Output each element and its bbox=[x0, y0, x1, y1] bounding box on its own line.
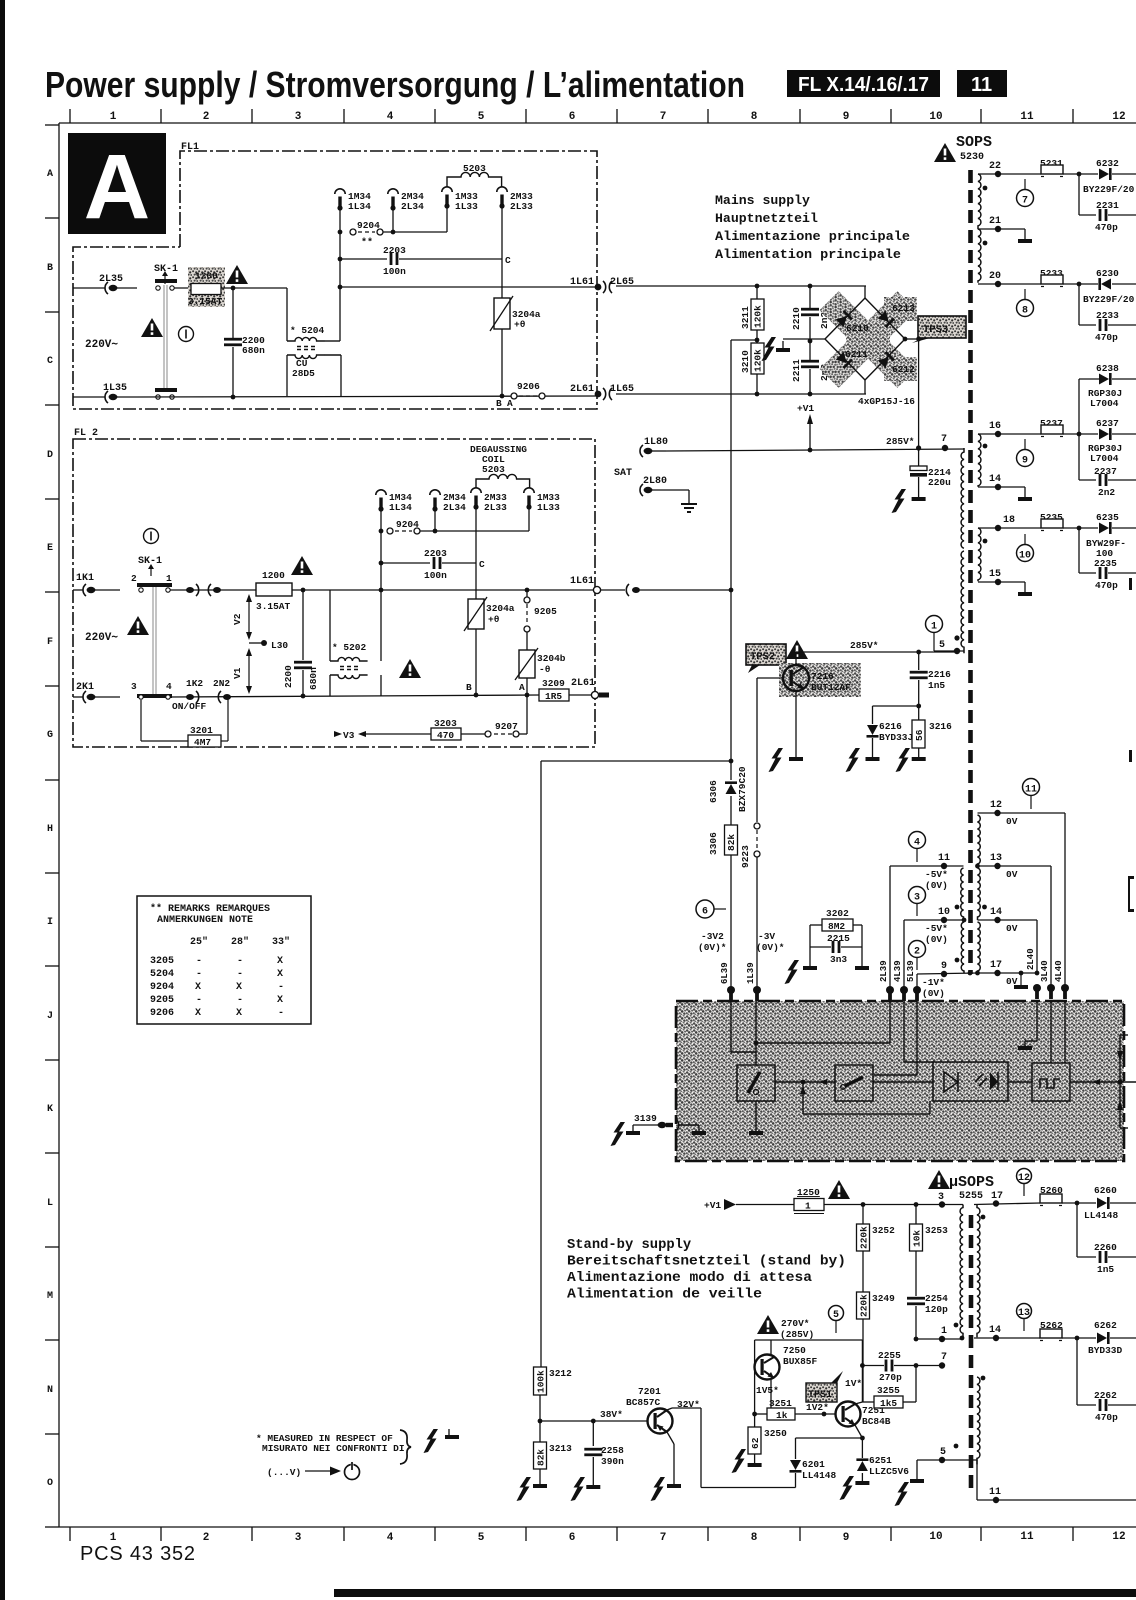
svg-text:-θ: -θ bbox=[539, 664, 551, 675]
IC output wire right bbox=[1070, 1081, 1136, 1083]
test symbol circled I bbox=[179, 327, 194, 342]
filter risers FL2 bbox=[329, 590, 331, 661]
zener 6306 BZX79C20 bbox=[730, 761, 732, 780]
svg-text:2203: 2203 bbox=[383, 245, 406, 256]
svg-text:2: 2 bbox=[203, 1532, 210, 1544]
svg-text:100n: 100n bbox=[424, 570, 447, 581]
bottom ruler bbox=[59, 1527, 1136, 1541]
wire 2L65 rail bbox=[616, 285, 866, 287]
diode 6201 LL4148 bbox=[795, 1438, 797, 1459]
svg-text:L: L bbox=[47, 1198, 53, 1209]
capacitor 2203 100n FL2 bbox=[381, 562, 430, 564]
svg-text:2L40: 2L40 bbox=[1026, 948, 1036, 970]
svg-text:7216: 7216 bbox=[811, 671, 834, 682]
winding 12-13 bbox=[978, 815, 981, 865]
degauss coil stub 1M33 1L33 FL2 bbox=[524, 488, 534, 510]
IC control block (hybrid) bbox=[676, 1001, 1124, 1161]
svg-text:220u: 220u bbox=[928, 477, 951, 488]
svg-text:+θ: +θ bbox=[514, 319, 526, 330]
svg-text:14: 14 bbox=[989, 1325, 1001, 1336]
svg-text:6212: 6212 bbox=[892, 364, 915, 375]
svg-text:3202: 3202 bbox=[826, 908, 849, 919]
svg-text:5: 5 bbox=[478, 1532, 485, 1544]
wire top rail FL2 bbox=[170, 589, 256, 591]
svg-text:2: 2 bbox=[203, 111, 210, 123]
svg-text:2203: 2203 bbox=[424, 548, 447, 559]
svg-text:L30: L30 bbox=[271, 640, 288, 651]
pin 9 wire bbox=[917, 973, 978, 974]
svg-text:3211: 3211 bbox=[740, 306, 751, 329]
wire 7251 emitter to zener bbox=[855, 1425, 862, 1438]
wire 285V rail bbox=[666, 449, 964, 451]
svg-text:-: - bbox=[196, 956, 202, 967]
5255 secondary winding 17-14 bbox=[977, 1205, 980, 1338]
svg-text:BYD33J: BYD33J bbox=[879, 732, 913, 743]
svg-text:2: 2 bbox=[131, 573, 137, 584]
svg-text:Alimentazione modo di attesa: Alimentazione modo di attesa bbox=[567, 1270, 812, 1286]
svg-text:2L39: 2L39 bbox=[879, 960, 889, 982]
degauss coil stub 2M34 2L34 bbox=[388, 189, 398, 211]
svg-text:2L35: 2L35 bbox=[99, 274, 123, 285]
heading Mains supply bbox=[715, 193, 910, 262]
svg-text:28″: 28″ bbox=[231, 936, 249, 948]
svg-text:E: E bbox=[47, 543, 53, 554]
svg-text:11: 11 bbox=[989, 1487, 1001, 1498]
test point 6 bbox=[696, 900, 714, 918]
svg-text:5255: 5255 bbox=[959, 1191, 983, 1202]
pin 17 wire secondary top bbox=[974, 1203, 1040, 1205]
svg-text:2N2: 2N2 bbox=[213, 678, 230, 689]
IC wires from 2L40 terminals bbox=[1036, 1001, 1038, 1041]
svg-text:120k: 120k bbox=[753, 305, 764, 328]
svg-text:1L33: 1L33 bbox=[537, 502, 560, 513]
svg-text:(...V): (...V) bbox=[267, 1467, 301, 1478]
svg-text:7: 7 bbox=[660, 111, 667, 123]
svg-text:4: 4 bbox=[914, 838, 920, 849]
winding 13-14 bbox=[978, 868, 981, 920]
resistor 3212 100k bbox=[534, 1367, 547, 1395]
capacitor 2235 470p bbox=[1077, 526, 1082, 531]
svg-text:6237: 6237 bbox=[1096, 418, 1119, 429]
svg-text:20: 20 bbox=[989, 271, 1001, 282]
svg-text:LLZC5V6: LLZC5V6 bbox=[869, 1466, 909, 1477]
svg-text:FL X.14/.16/.17: FL X.14/.16/.17 bbox=[798, 74, 929, 96]
svg-text:6251: 6251 bbox=[869, 1455, 892, 1466]
pin 11 wire bbox=[890, 865, 964, 867]
svg-text:5: 5 bbox=[833, 1310, 839, 1321]
svg-text:Hauptnetzteil: Hauptnetzteil bbox=[715, 211, 818, 226]
capacitor 2262 470p bbox=[1075, 1336, 1080, 1341]
capacitor 2260 1n5 bbox=[1075, 1201, 1080, 1206]
pin 1 wire bbox=[914, 1338, 963, 1340]
svg-text:BUX85F: BUX85F bbox=[783, 1356, 818, 1367]
svg-text:9204: 9204 bbox=[357, 220, 380, 231]
FL2 dash-dot frame bbox=[73, 439, 595, 747]
svg-text:Alimentazione principale: Alimentazione principale bbox=[715, 229, 910, 244]
svg-text:FL 2: FL 2 bbox=[74, 428, 98, 439]
svg-text:ON/OFF: ON/OFF bbox=[172, 701, 207, 712]
uSOPS warning + label bbox=[928, 1170, 950, 1189]
svg-text:BUT12AF: BUT12AF bbox=[811, 682, 851, 693]
svg-text:L7004: L7004 bbox=[1090, 453, 1119, 464]
svg-text:3255: 3255 bbox=[877, 1385, 900, 1396]
svg-text:1V*: 1V* bbox=[845, 1378, 862, 1389]
svg-text:6230: 6230 bbox=[1096, 268, 1119, 279]
svg-text:Alimentation principale: Alimentation principale bbox=[715, 247, 901, 262]
svg-text:9205: 9205 bbox=[150, 995, 174, 1006]
node V3 bbox=[358, 731, 366, 737]
svg-text:6216: 6216 bbox=[879, 721, 902, 732]
svg-text:I: I bbox=[47, 917, 53, 928]
transistor 7250 BUX85F bbox=[755, 1355, 780, 1380]
svg-text:-: - bbox=[278, 982, 284, 993]
svg-text:BZX79C20: BZX79C20 bbox=[737, 766, 748, 812]
test point 10 bbox=[1017, 545, 1034, 562]
svg-text:13: 13 bbox=[990, 853, 1002, 864]
svg-text:(0V)*: (0V)* bbox=[698, 942, 727, 953]
svg-text:12: 12 bbox=[1112, 1531, 1125, 1543]
svg-text:3: 3 bbox=[295, 111, 302, 123]
svg-text:470p: 470p bbox=[1095, 580, 1118, 591]
svg-text:5L39: 5L39 bbox=[906, 960, 916, 982]
svg-text:-3V2: -3V2 bbox=[701, 931, 724, 942]
svg-text:100n: 100n bbox=[383, 266, 406, 277]
svg-text:5: 5 bbox=[478, 111, 485, 123]
resistor 3253 10k bbox=[915, 1205, 917, 1225]
svg-text:3306: 3306 bbox=[708, 832, 719, 855]
svg-text:1L80: 1L80 bbox=[644, 437, 668, 448]
svg-text:6: 6 bbox=[569, 1532, 576, 1544]
svg-text:X: X bbox=[195, 1008, 201, 1019]
wire degauss column FL2 bbox=[380, 510, 382, 590]
svg-text:ANMERKUNGEN NOTE: ANMERKUNGEN NOTE bbox=[157, 915, 253, 926]
svg-text:21: 21 bbox=[989, 216, 1001, 227]
svg-text:1: 1 bbox=[931, 622, 937, 633]
wires 3202/2215 parallel bbox=[809, 925, 811, 947]
IC wire opto to pwm bbox=[1008, 1081, 1032, 1083]
wire FL1 bottom rail bbox=[137, 396, 597, 397]
svg-text:9223: 9223 bbox=[740, 845, 751, 868]
svg-text:-: - bbox=[196, 995, 202, 1006]
svg-text:* 5202: * 5202 bbox=[332, 642, 367, 653]
capacitor 2210 2n2 bbox=[809, 286, 811, 308]
svg-text:Mains supply: Mains supply bbox=[715, 193, 810, 208]
svg-text:D: D bbox=[47, 450, 53, 461]
svg-text:A: A bbox=[84, 136, 150, 238]
svg-text:7: 7 bbox=[1022, 196, 1028, 207]
transistor 7251 BC848 bbox=[836, 1402, 861, 1427]
bridge rectifier stipple arms bbox=[820, 291, 917, 388]
svg-text:B: B bbox=[496, 398, 502, 409]
svg-text:6235: 6235 bbox=[1096, 512, 1119, 523]
svg-text:A: A bbox=[47, 169, 53, 180]
badge A block bbox=[68, 133, 166, 234]
svg-text:G: G bbox=[47, 730, 53, 741]
transformer 5255 core bbox=[969, 1215, 974, 1492]
node +V1 arrow bbox=[809, 420, 811, 450]
wire 38V to 7201 base bbox=[540, 1420, 648, 1422]
svg-text:7: 7 bbox=[941, 434, 947, 445]
svg-text:82k: 82k bbox=[726, 834, 737, 851]
warning triangle FL1 mains bbox=[141, 318, 163, 337]
resistor 3211 120k bbox=[756, 286, 758, 299]
svg-text:62: 62 bbox=[750, 1437, 761, 1449]
wire divider tap to hot return rail bbox=[731, 339, 757, 341]
svg-text:470p: 470p bbox=[1095, 1412, 1118, 1423]
svg-text:2254: 2254 bbox=[925, 1293, 948, 1304]
svg-text:10k: 10k bbox=[912, 1230, 923, 1247]
svg-text:M: M bbox=[47, 1291, 53, 1302]
secondary winding 18-15 bbox=[978, 528, 981, 581]
svg-text:μSOPS: μSOPS bbox=[949, 1174, 994, 1191]
svg-text:* 5204: * 5204 bbox=[290, 325, 325, 336]
svg-text:220k: 220k bbox=[859, 1294, 870, 1317]
wire filter bottom loop FL1 bbox=[286, 355, 288, 396]
svg-text:25″: 25″ bbox=[190, 936, 208, 948]
pin 22 wire bbox=[978, 173, 1041, 175]
capacitor 2203 100n FL1 bbox=[340, 258, 387, 260]
svg-text:-: - bbox=[237, 969, 243, 980]
capacitor 2200 680n FL1 bbox=[232, 288, 234, 338]
svg-text:9206: 9206 bbox=[150, 1008, 174, 1019]
test point 8 bbox=[1017, 300, 1034, 317]
svg-text:Power supply / Stromversorgung: Power supply / Stromversorgung / L’alime… bbox=[45, 64, 745, 105]
resistor 3249 220k bbox=[857, 1292, 870, 1319]
link 9223 bbox=[754, 823, 760, 829]
svg-text:13: 13 bbox=[1018, 1308, 1030, 1319]
svg-text:2n2: 2n2 bbox=[1098, 487, 1115, 498]
svg-text:680n: 680n bbox=[242, 345, 265, 356]
svg-text:-: - bbox=[196, 969, 202, 980]
svg-text:3210: 3210 bbox=[740, 350, 751, 373]
svg-text:** REMARKS REMARQUES: ** REMARKS REMARQUES bbox=[150, 903, 270, 915]
svg-text:8: 8 bbox=[751, 1532, 758, 1544]
svg-text:2L33: 2L33 bbox=[484, 502, 507, 513]
svg-text:4M7: 4M7 bbox=[194, 737, 211, 748]
svg-text:X: X bbox=[236, 982, 242, 993]
pin 18 wire bbox=[978, 527, 1041, 529]
warning triangle fuse FL2 bbox=[291, 556, 313, 575]
svg-text:4: 4 bbox=[387, 1532, 394, 1544]
svg-text:(285V): (285V) bbox=[780, 1329, 814, 1340]
svg-text:11: 11 bbox=[971, 74, 992, 96]
bridge top vertex riser bbox=[864, 286, 866, 298]
svg-text:+θ: +θ bbox=[488, 614, 500, 625]
svg-text:6306: 6306 bbox=[708, 780, 719, 803]
badge TPS3 bbox=[918, 316, 966, 338]
svg-text:5: 5 bbox=[940, 1447, 946, 1458]
svg-text:A: A bbox=[507, 398, 513, 409]
wire 1L61 rail FL1 bbox=[340, 286, 597, 288]
degauss coil stub 1M34 1L34 bbox=[335, 189, 345, 211]
svg-text:220V∼: 220V∼ bbox=[85, 632, 118, 644]
svg-text:56: 56 bbox=[914, 729, 925, 741]
svg-text:TPS3: TPS3 bbox=[923, 324, 948, 336]
badge FL X.14/.16/.17 bbox=[787, 70, 940, 97]
svg-text:7: 7 bbox=[660, 1532, 667, 1544]
left ruler bbox=[45, 123, 59, 1527]
wire filter top to degauss column bbox=[325, 340, 341, 342]
resistor 3252 220k bbox=[862, 1205, 864, 1225]
right edge tick marks bbox=[1129, 578, 1132, 590]
svg-text:3203: 3203 bbox=[434, 718, 457, 729]
IC sub-block optocoupler bbox=[933, 1062, 1008, 1101]
transistor 7216 BUT12AF bbox=[779, 663, 861, 697]
measuring arrow V2 bbox=[248, 596, 250, 638]
wire fuse to cap node bbox=[221, 287, 287, 289]
pin 16 wire bbox=[978, 433, 1041, 435]
svg-text:5230: 5230 bbox=[960, 152, 984, 163]
svg-text:270V*: 270V* bbox=[781, 1318, 810, 1329]
svg-text:-5V*: -5V* bbox=[925, 923, 948, 934]
svg-text:O: O bbox=[47, 1478, 53, 1489]
svg-text:BY229F/20: BY229F/20 bbox=[1083, 294, 1135, 305]
wire 1L65 rail bbox=[616, 393, 866, 395]
wire 7216 emitter to hot ground bbox=[795, 691, 797, 757]
wire V3 row bbox=[526, 695, 528, 734]
svg-text:10: 10 bbox=[938, 907, 950, 918]
bridge rectifier diamond 6210 6211 6212 6213 bbox=[825, 298, 905, 380]
svg-text:BC84B: BC84B bbox=[862, 1416, 891, 1427]
pin 14 wire secondary bbox=[974, 1337, 1040, 1339]
svg-text:3.15AT: 3.15AT bbox=[256, 601, 291, 612]
top ruler bbox=[59, 109, 1136, 123]
svg-text:2: 2 bbox=[914, 947, 920, 958]
svg-text:TPS2: TPS2 bbox=[750, 651, 775, 663]
svg-text:3139: 3139 bbox=[634, 1113, 657, 1124]
IC sub-block error amp switch bbox=[737, 1065, 775, 1101]
svg-text:9206: 9206 bbox=[517, 381, 540, 392]
thermistor 3204a FL2 bbox=[475, 507, 477, 599]
warning 270V (285V) bbox=[757, 1315, 779, 1334]
svg-text:120p: 120p bbox=[925, 1304, 948, 1315]
resistor 3216 56 bbox=[918, 706, 920, 720]
svg-text:(0V): (0V) bbox=[925, 934, 948, 945]
svg-text:SOPS: SOPS bbox=[956, 134, 992, 151]
svg-text:3253: 3253 bbox=[925, 1225, 948, 1236]
svg-text:1L33: 1L33 bbox=[455, 201, 478, 212]
svg-text:4L39: 4L39 bbox=[893, 960, 903, 982]
svg-text:4L40: 4L40 bbox=[1054, 960, 1064, 982]
svg-text:LL4148: LL4148 bbox=[802, 1470, 837, 1481]
svg-text:3: 3 bbox=[938, 1192, 944, 1203]
svg-text:11: 11 bbox=[1020, 1531, 1034, 1543]
svg-text:6238: 6238 bbox=[1096, 363, 1119, 374]
pin 11 wire bbox=[976, 1460, 978, 1500]
resistor 3306 82k bbox=[725, 825, 738, 855]
resistor 3213 82k bbox=[534, 1442, 547, 1469]
svg-text:-: - bbox=[278, 1008, 284, 1019]
wire 7250 collector rail bbox=[755, 1339, 863, 1341]
secondary winding 22-21-20 bbox=[978, 174, 981, 229]
bottom page bar bbox=[334, 1589, 1136, 1597]
diode 6212 bbox=[878, 351, 895, 368]
pin 13 wire bbox=[978, 865, 1052, 867]
capacitor 2258 390n bbox=[592, 1421, 594, 1446]
node L30 bbox=[249, 642, 262, 644]
pin 5 wire with ground bbox=[917, 1459, 977, 1461]
svg-text:38V*: 38V* bbox=[600, 1409, 623, 1420]
svg-text:X: X bbox=[195, 982, 201, 993]
svg-text:3250: 3250 bbox=[764, 1428, 787, 1439]
wire 7251 collector bbox=[855, 1402, 862, 1404]
wire 285V to pin 5 bbox=[795, 652, 797, 665]
wire 1L61 rail FL2 bbox=[381, 589, 595, 591]
test point 1 bbox=[926, 616, 943, 633]
svg-text:2L34: 2L34 bbox=[443, 502, 466, 513]
svg-text:0V: 0V bbox=[1006, 869, 1018, 880]
IC wire from 2L39 4L39 bbox=[756, 1042, 890, 1044]
svg-text:3212: 3212 bbox=[549, 1368, 572, 1379]
IC sub-block pwm bbox=[1032, 1063, 1070, 1101]
svg-text:28D5: 28D5 bbox=[292, 368, 315, 379]
svg-text:4: 4 bbox=[387, 111, 394, 123]
svg-text:1V2*: 1V2* bbox=[806, 1402, 829, 1413]
svg-text:285V*: 285V* bbox=[886, 436, 915, 447]
warning triangle 7216 bbox=[786, 640, 808, 659]
winding 11-10-9 bbox=[961, 868, 964, 920]
svg-text:BYD33D: BYD33D bbox=[1088, 1345, 1123, 1356]
line filter 5204 CU 28D5 bbox=[286, 288, 288, 341]
svg-text:(0V): (0V) bbox=[925, 880, 948, 891]
svg-text:3.15AT: 3.15AT bbox=[188, 296, 223, 307]
svg-text:3n3: 3n3 bbox=[830, 954, 847, 965]
degauss coil stub 2M33 2L33 bbox=[497, 187, 507, 209]
svg-text:2255: 2255 bbox=[878, 1350, 901, 1361]
svg-text:C: C bbox=[505, 255, 511, 266]
svg-text:1: 1 bbox=[805, 1201, 811, 1212]
svg-text:5203: 5203 bbox=[482, 464, 505, 475]
test point 3 bbox=[909, 887, 926, 904]
svg-text:Stand-by supply: Stand-by supply bbox=[567, 1237, 692, 1253]
svg-text:A: A bbox=[519, 682, 525, 693]
svg-text:1R5: 1R5 bbox=[545, 691, 562, 702]
svg-text:3L40: 3L40 bbox=[1040, 960, 1050, 982]
svg-text:470p: 470p bbox=[1095, 222, 1118, 233]
svg-text:N: N bbox=[47, 1385, 53, 1396]
pin 15 wire with ground bbox=[978, 581, 1025, 583]
svg-text:10: 10 bbox=[929, 111, 942, 123]
svg-text:0V: 0V bbox=[1006, 816, 1018, 827]
hot ground at bridge bbox=[783, 338, 825, 340]
svg-text:9204: 9204 bbox=[150, 982, 174, 993]
svg-text:C: C bbox=[479, 559, 485, 570]
SOPS warning bbox=[934, 143, 956, 162]
pin 21 wire with ground bbox=[978, 228, 1025, 230]
warning triangle 1250 bbox=[828, 1180, 850, 1199]
fuse 1200 3.15AT bbox=[188, 267, 225, 307]
svg-text:J: J bbox=[47, 1011, 53, 1022]
warning triangle fuse FL1 bbox=[226, 265, 248, 284]
svg-text:LL4148: LL4148 bbox=[1084, 1210, 1119, 1221]
test point 13 bbox=[1017, 1304, 1032, 1319]
svg-text:3209: 3209 bbox=[542, 678, 565, 689]
svg-text:1K1: 1K1 bbox=[76, 573, 94, 584]
svg-text:3: 3 bbox=[131, 681, 137, 692]
diode 6211 bbox=[836, 352, 853, 369]
resistor 3201 4M7 bbox=[140, 700, 142, 741]
svg-text:15: 15 bbox=[989, 569, 1001, 580]
svg-text:12: 12 bbox=[990, 800, 1002, 811]
capacitor 2214 220u bbox=[918, 448, 920, 466]
svg-text:4xGP15J-16: 4xGP15J-16 bbox=[858, 396, 915, 407]
svg-text:-3V: -3V bbox=[758, 931, 775, 942]
capacitor 2254 120p bbox=[907, 1297, 925, 1305]
svg-text:82k: 82k bbox=[536, 1449, 547, 1466]
svg-text:3213: 3213 bbox=[549, 1443, 572, 1454]
badge 11 bbox=[957, 70, 1007, 97]
warning triangle FL2 mains bbox=[127, 616, 149, 635]
